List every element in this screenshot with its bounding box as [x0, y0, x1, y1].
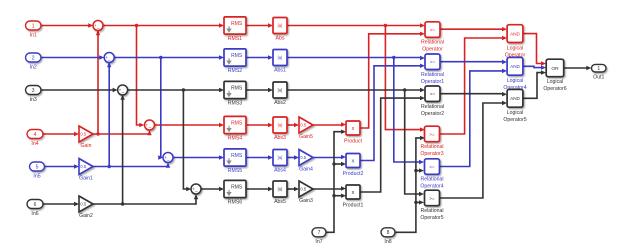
svg-text:RMS4: RMS4	[228, 135, 243, 141]
input port In7	[312, 228, 326, 237]
svg-text:In3: In3	[30, 97, 37, 103]
svg-text:Operator4: Operator4	[420, 184, 443, 190]
wire Gain1 to Sum5	[93, 163, 170, 168]
wire In5 to Gain1	[43, 164, 79, 168]
wire Gain1 feedback up to Sum2	[107, 62, 111, 166]
abs block Abs	[273, 18, 287, 34]
wire Sum1 to RMS1	[103, 23, 224, 27]
wire Sum2 to RMS2	[114, 55, 224, 59]
relational operator block Operator4	[425, 159, 440, 175]
wire In8 to RelOps	[395, 136, 425, 233]
svg-text:Abs4: Abs4	[274, 167, 286, 173]
abs block Abs3	[273, 117, 287, 133]
wire Abs1 branch down to RelOp5	[394, 58, 424, 165]
svg-text:OR: OR	[551, 66, 559, 72]
svg-text:Operator3: Operator3	[420, 151, 443, 157]
RMS block RMS2	[224, 49, 246, 66]
svg-text:Operator6: Operator6	[543, 86, 566, 92]
svg-text:Operator5: Operator5	[503, 117, 526, 123]
junction b2	[108, 165, 111, 168]
svg-text:Product1: Product1	[343, 203, 364, 209]
wire In7 to Products	[326, 130, 346, 233]
wire Product2 up to RelOp2	[360, 64, 425, 161]
svg-text:|u|: |u|	[278, 23, 283, 28]
logical AND block Operator5	[507, 89, 523, 107]
wire Sum6 to RMS6	[201, 187, 224, 191]
gain block Gain3	[299, 181, 313, 197]
wire RMS6 to Abs5	[246, 187, 273, 191]
svg-text:RMS2: RMS2	[228, 68, 243, 74]
svg-text:In1: In1	[30, 32, 37, 38]
RMS block RMS6	[224, 180, 246, 197]
wire Gain4 to Product2	[313, 155, 346, 159]
svg-text:Relational: Relational	[420, 144, 443, 150]
relational operator block Operator2	[425, 86, 440, 102]
svg-text:RMS: RMS	[231, 21, 243, 27]
svg-text:|u|: |u|	[278, 88, 283, 93]
svg-text:Logical: Logical	[547, 79, 563, 85]
input port In8	[381, 228, 395, 237]
svg-text:Relational: Relational	[421, 104, 444, 110]
svg-text:2: 2	[32, 55, 35, 61]
junction k1	[182, 88, 185, 91]
svg-text:|u|: |u|	[278, 55, 283, 60]
gain block Gain1	[79, 159, 93, 175]
svg-text:AND: AND	[510, 64, 520, 69]
svg-text:−: −	[97, 26, 100, 32]
svg-text:3: 3	[32, 88, 35, 94]
relational operator block Operator	[425, 22, 440, 38]
wire Sum3 branch down to Sum6	[183, 90, 191, 191]
input port In4	[27, 130, 43, 139]
svg-text:−: −	[148, 126, 151, 132]
svg-text:RMS: RMS	[231, 121, 243, 127]
wire Abs2 to RelOp3	[287, 88, 425, 92]
svg-text:−: −	[195, 190, 198, 196]
svg-text:Gain3: Gain3	[299, 198, 313, 204]
junction b1	[159, 56, 162, 59]
svg-text:>=: >=	[429, 164, 435, 169]
svg-text:RMS: RMS	[231, 185, 243, 191]
product block Product2	[346, 154, 360, 168]
gain block Gain2	[79, 196, 93, 212]
junction k4	[332, 162, 335, 165]
junction k6	[414, 169, 417, 172]
svg-text:Product: Product	[344, 139, 362, 145]
product block Product	[346, 121, 360, 135]
svg-text:0.5: 0.5	[80, 164, 86, 169]
sum block Sum	[93, 21, 103, 33]
RMS block RMS1	[224, 17, 246, 34]
svg-text:0.5: 0.5	[300, 155, 306, 160]
svg-text:Relational: Relational	[421, 40, 444, 46]
svg-text:RMS6: RMS6	[228, 199, 243, 205]
svg-text:Gain1: Gain1	[79, 176, 93, 182]
svg-text:Gain5: Gain5	[299, 134, 313, 140]
svg-text:>=: >=	[430, 92, 436, 97]
svg-text:0.5: 0.5	[300, 123, 306, 128]
wire Abs1 to RelOp2	[287, 56, 425, 60]
svg-text:x: x	[352, 126, 355, 132]
svg-text:−: −	[108, 58, 111, 64]
svg-text:Logical: Logical	[507, 110, 523, 116]
RMS block RMS3	[224, 81, 246, 98]
junction k2	[121, 202, 124, 205]
logical AND block Operator4	[507, 57, 523, 75]
svg-text:7: 7	[318, 230, 321, 236]
wire Gain2 to Sum6	[93, 194, 198, 204]
sum block Sum3	[145, 120, 155, 132]
svg-text:4: 4	[34, 132, 37, 138]
wire AND1 to OR	[523, 34, 546, 66]
logical AND block Operator	[507, 25, 523, 43]
wire Sum4 to RMS4	[155, 123, 225, 127]
relational operator block Operator5	[425, 190, 440, 206]
input port In1	[26, 21, 42, 30]
output port Out1	[592, 64, 607, 72]
wire Abs5 to Gain3	[287, 187, 299, 191]
svg-text:Abs2: Abs2	[274, 100, 286, 106]
junction b3	[392, 56, 395, 59]
wire Gain3 to Product1	[313, 186, 346, 190]
sum block Sum5	[191, 184, 201, 196]
svg-text:Operator2: Operator2	[421, 111, 444, 117]
svg-text:−: −	[122, 91, 125, 97]
junction k5	[332, 194, 335, 197]
junction r3	[384, 24, 387, 27]
svg-text:RMS3: RMS3	[228, 100, 243, 106]
wire RMS1 to Abs	[246, 23, 273, 27]
svg-text:Abs5: Abs5	[274, 199, 286, 205]
svg-text:RMS: RMS	[231, 53, 243, 59]
wire Sum1 branch down to Sum4	[137, 26, 145, 128]
product block Product1	[346, 185, 360, 199]
svg-text:Abs1: Abs1	[274, 67, 286, 73]
wire Abs2 branch down to RelOp6	[405, 90, 424, 196]
wire RMS5 to Abs4	[246, 155, 273, 159]
gain block Gain	[79, 126, 93, 142]
wire RelOp5 to AND2	[439, 69, 507, 167]
svg-text:In2: In2	[30, 64, 37, 70]
junction k7	[414, 201, 417, 204]
svg-text:Abs3: Abs3	[274, 135, 286, 141]
svg-text:>=: >=	[429, 132, 435, 137]
wire RelOp2 to AND2	[440, 60, 507, 64]
wire Abs branch down to RelOp4	[385, 26, 425, 132]
wire Gain5 to Product	[313, 122, 346, 126]
wire RelOp1 to AND1	[440, 27, 507, 31]
junction r2	[96, 132, 99, 135]
svg-text:RMS: RMS	[231, 86, 243, 92]
abs block Abs1	[273, 50, 287, 66]
sum block Sum2	[118, 85, 128, 97]
svg-text:Operator: Operator	[422, 47, 443, 53]
svg-text:|u|: |u|	[278, 187, 283, 192]
svg-text:0.5: 0.5	[80, 202, 86, 207]
svg-text:In6: In6	[31, 211, 38, 217]
wire AND3 to OR	[523, 70, 546, 98]
abs block Abs4	[273, 150, 287, 166]
logical OR block Operator6	[546, 59, 564, 76]
svg-text:In4: In4	[31, 141, 38, 147]
wire RMS2 to Abs1	[246, 55, 273, 59]
wire Gain2 feedback up to Sum3	[120, 95, 124, 204]
svg-text:Gain2: Gain2	[79, 213, 93, 219]
wire Sum2 branch down to Sum5	[158, 58, 163, 160]
wire In6 to Gain2	[43, 202, 79, 206]
input port In2	[26, 53, 42, 62]
svg-text:0.5: 0.5	[300, 187, 306, 192]
svg-text:Gain4: Gain4	[299, 167, 313, 173]
wire Gain to Sum4	[93, 130, 152, 135]
svg-text:Operator1: Operator1	[421, 79, 444, 85]
gain block Gain4	[299, 150, 313, 166]
svg-text:1: 1	[32, 23, 35, 29]
svg-text:6: 6	[34, 202, 37, 208]
svg-text:Gain: Gain	[81, 143, 92, 149]
wire In4 to Gain	[43, 132, 79, 136]
input port In3	[26, 86, 42, 95]
sum block Sum1	[104, 53, 114, 65]
RMS block RMS4	[224, 116, 246, 133]
relational operator block Operator3	[425, 126, 440, 142]
svg-text:Logical: Logical	[507, 45, 523, 51]
junction r1	[135, 24, 138, 27]
junction k3	[403, 88, 406, 91]
svg-text:RMS1: RMS1	[228, 36, 243, 42]
svg-text:Relational: Relational	[420, 177, 443, 183]
input port In6	[27, 200, 43, 209]
RMS block RMS5	[224, 149, 246, 166]
wire Abs4 to Gain4	[287, 155, 299, 159]
svg-text:Out1: Out1	[593, 74, 604, 80]
svg-text:Logical: Logical	[507, 78, 523, 84]
wire Abs to RelOp1	[287, 23, 425, 27]
wire In2 to Sum2	[41, 55, 104, 59]
svg-text:Abs: Abs	[276, 35, 285, 41]
svg-text:1: 1	[597, 66, 600, 72]
wire RelOp3 to AND3	[440, 92, 507, 96]
wire Sum3 to RMS3	[128, 88, 224, 92]
svg-text:Operator5: Operator5	[420, 215, 443, 221]
svg-text:x: x	[352, 159, 355, 165]
svg-text:In7: In7	[315, 239, 322, 245]
wire Sum5 to RMS5	[173, 155, 224, 159]
wire Gain feedback up to Sum1	[96, 30, 100, 134]
wire RelOp6 to AND3	[440, 101, 507, 198]
svg-text:|u|: |u|	[278, 155, 283, 160]
svg-text:5: 5	[36, 164, 39, 170]
abs block Abs2	[273, 82, 287, 98]
relational operator block Operator1	[425, 54, 440, 70]
wire In1 to Sum1	[41, 23, 93, 27]
wire Abs3 to Gain5	[287, 123, 299, 127]
svg-text:8: 8	[387, 230, 390, 236]
svg-text:>=: >=	[430, 27, 436, 32]
svg-text:−: −	[167, 158, 170, 164]
wire RelOp4 to AND1	[440, 36, 507, 134]
svg-text:|u|: |u|	[278, 123, 283, 128]
svg-text:AND: AND	[510, 31, 520, 36]
wire In3 to Sum3	[41, 88, 118, 92]
sum block Sum4	[163, 153, 173, 165]
svg-text:RMS5: RMS5	[228, 168, 243, 174]
svg-text:Relational: Relational	[420, 208, 443, 214]
svg-text:RMS: RMS	[231, 153, 243, 159]
svg-text:>=: >=	[429, 196, 435, 201]
wire Product up to RelOp1	[360, 32, 425, 128]
wire AND2 to OR	[523, 65, 546, 69]
abs block Abs5	[273, 181, 287, 197]
svg-text:In5: In5	[33, 173, 40, 179]
input port In5	[30, 162, 45, 171]
svg-text:x: x	[352, 190, 355, 196]
svg-text:Product2: Product2	[343, 171, 364, 177]
wire RMS3 to Abs2	[246, 88, 273, 92]
svg-text:Relational: Relational	[421, 72, 444, 78]
wire RMS4 to Abs3	[246, 123, 273, 127]
svg-text:>=: >=	[430, 60, 436, 65]
svg-text:AND: AND	[510, 96, 520, 101]
svg-text:In8: In8	[384, 239, 391, 245]
svg-text:0.5: 0.5	[80, 132, 86, 137]
gain block Gain5	[299, 117, 313, 133]
wire Product1 up to RelOp3	[360, 96, 425, 192]
wire OR to Out1	[564, 66, 592, 70]
